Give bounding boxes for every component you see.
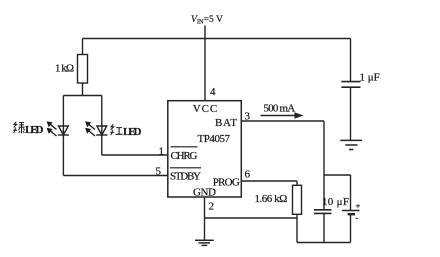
- wire right LED bottom lead: [101, 135, 103, 155]
- svg-text:1 kΩ: 1 kΩ: [55, 63, 74, 75]
- op-amp U1 TP4057 body: [168, 101, 242, 197]
- wire left LED top lead: [62, 96, 64, 136]
- wire BAT vertical lower: [323, 213, 325, 242]
- battery BT1 long plate: [342, 210, 360, 212]
- LED D1 green triangle: [59, 126, 69, 135]
- wire LED branch rail: [63, 95, 101, 97]
- arrow 500 mA current shaft: [261, 115, 297, 117]
- svg-text:STDBY: STDBY: [170, 170, 201, 182]
- ground under pin 2: [195, 240, 214, 245]
- svg-text:5: 5: [156, 166, 162, 178]
- wire R2 bottom lead: [296, 214, 298, 242]
- svg-text:3: 3: [245, 110, 251, 122]
- node VIN stub: [204, 26, 206, 39]
- svg-text:6: 6: [245, 169, 251, 181]
- svg-text:-: -: [356, 214, 359, 223]
- LED D1 cathode bar: [58, 134, 69, 136]
- wire C1 bottom lead: [350, 87, 352, 140]
- svg-text:VCC: VCC: [193, 103, 218, 115]
- svg-text:1: 1: [159, 146, 165, 158]
- wire CHRG to pin 1: [102, 154, 168, 156]
- resistor R2 1.66 kOhm body: [293, 185, 302, 214]
- capacitor C1 1uF plates: [341, 82, 360, 88]
- svg-text:+: +: [356, 201, 361, 211]
- wire battery branch horizontal: [324, 174, 351, 176]
- resistor R1 1 kOhm body: [78, 55, 88, 84]
- svg-text:BAT: BAT: [215, 117, 237, 129]
- LED D2 label red (hanzi drawn): [110, 124, 122, 135]
- resistor R1 bottom lead: [82, 83, 84, 96]
- svg-text:1 μF: 1 μF: [360, 71, 380, 83]
- svg-text:10 μF: 10 μF: [322, 196, 349, 208]
- svg-text:VIN=5 V: VIN=5 V: [191, 15, 223, 26]
- LED D2 light arrows: [85, 121, 95, 136]
- svg-text:2: 2: [209, 201, 215, 213]
- svg-text:GND: GND: [193, 187, 216, 199]
- ground under C1: [340, 140, 362, 149]
- wire battery top lead: [350, 175, 352, 211]
- wire pin 2 vertical: [204, 197, 206, 240]
- LED D2 red triangle: [97, 126, 107, 135]
- wire right LED top lead: [101, 96, 103, 136]
- wire left LED bottom lead: [62, 135, 64, 176]
- arrow 500 mA head: [295, 112, 304, 118]
- battery BT1 short plate: [348, 213, 355, 215]
- wire battery bottom lead: [350, 214, 352, 242]
- wire STDBY to pin 5: [63, 175, 167, 177]
- svg-text:CHRG: CHRG: [171, 150, 198, 162]
- LED D1 label green (hanzi drawn): [13, 122, 24, 134]
- wire GND branch to R2: [205, 217, 298, 219]
- wire top rail VIN: [83, 38, 351, 40]
- capacitor C2 10uF plates: [314, 210, 332, 214]
- wire top rail right drop: [350, 39, 352, 82]
- svg-text:LED: LED: [123, 126, 142, 138]
- wire BAT vertical upper: [323, 121, 325, 210]
- resistor R1 1 kOhm top lead: [82, 39, 84, 55]
- wire BAT pin 3 horizontal: [241, 120, 324, 122]
- LED D2 cathode bar: [96, 134, 107, 136]
- svg-text:TP4057: TP4057: [198, 133, 231, 145]
- wire bottom rail: [297, 242, 351, 244]
- wire PROG pin 6 horizontal: [241, 181, 297, 185]
- svg-text:500 mA: 500 mA: [264, 102, 296, 114]
- wire pin4 VCC vertical: [204, 39, 206, 102]
- LED D1 light arrows: [47, 121, 57, 136]
- svg-text:4: 4: [210, 86, 216, 98]
- svg-text:1.66 kΩ: 1.66 kΩ: [255, 193, 288, 205]
- svg-text:PROG: PROG: [213, 177, 240, 189]
- svg-text:LED: LED: [25, 124, 44, 136]
